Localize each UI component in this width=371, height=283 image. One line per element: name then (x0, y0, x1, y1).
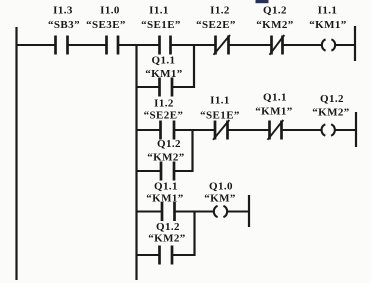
coil KM (214, 206, 227, 217)
svg-text:“SB3”: “SB3” (48, 19, 80, 31)
svg-text:Q1.2: Q1.2 (320, 93, 344, 105)
svg-text:“SE2E”: “SE2E” (144, 110, 184, 122)
contact Q1.1 KM1 (NC, rung2) (268, 120, 284, 140)
label I1.1 "SE1E" (141, 4, 181, 30)
svg-text:I1.1: I1.1 (318, 4, 338, 16)
svg-text:Q1.2: Q1.2 (157, 138, 181, 150)
contact Q1.2 KM2 (NO, branch B) (161, 162, 174, 181)
wire branch A (136, 86, 196, 88)
svg-text:“SE1E”: “SE1E” (200, 110, 240, 122)
right rail rung2 (355, 112, 357, 147)
right rail rung3 (248, 195, 250, 227)
label I1.2 "SE2E" (196, 4, 236, 30)
contact I1.0 SE3E (NO) (107, 36, 119, 55)
contact I1.1 SE1E (NO) (160, 36, 171, 55)
label I1.0 "SE3E" (86, 4, 126, 30)
svg-text:Q1.2: Q1.2 (263, 4, 287, 16)
wire rung2 (136, 129, 358, 131)
label Q1.0 "KM" (coil rung3) (204, 181, 236, 205)
svg-text:Q1.0: Q1.0 (209, 181, 233, 193)
label I1.1 "KM1" (coil rung1) (309, 4, 346, 30)
svg-text:I1.3: I1.3 (53, 4, 73, 16)
svg-text:“SE3E”: “SE3E” (86, 19, 126, 31)
svg-text:“KM1”: “KM1” (309, 19, 346, 31)
label I1.2 "SE2E" (rung2) (144, 98, 184, 122)
contact I1.1 SE1E (NC, rung2) (213, 120, 229, 140)
wire branch C (136, 254, 196, 256)
svg-text:I1.1: I1.1 (149, 4, 169, 16)
svg-text:Q1.1: Q1.1 (263, 92, 287, 104)
contact Q1.1 KM1 (NO, branch A) (160, 78, 173, 97)
svg-text:“KM1”: “KM1” (145, 68, 182, 80)
wire rung1 (16, 44, 357, 46)
svg-text:“KM1”: “KM1” (146, 193, 183, 205)
contact Q1.2 KM2 (NC, rung1) (270, 35, 285, 55)
label Q1.2 "KM2" (rung1) (256, 4, 293, 30)
vertical branch bus (node A) (135, 44, 137, 280)
label Q1.1 "KM1" (rung2) (255, 92, 292, 118)
svg-text:I1.2: I1.2 (154, 98, 174, 110)
contact I1.2 SE2E (NC) (214, 35, 231, 55)
svg-text:I1.1: I1.1 (210, 95, 230, 107)
svg-text:“KM2”: “KM2” (148, 233, 185, 245)
svg-text:I1.2: I1.2 (210, 4, 230, 16)
vertical branch right side rung2 (191, 129, 193, 172)
vertical branch right side rung1 (193, 44, 195, 88)
label Q1.2 "KM2" (branch C) (148, 221, 185, 245)
svg-text:“KM2”: “KM2” (256, 19, 293, 31)
svg-text:“KM”: “KM” (204, 193, 236, 205)
coil KM1 (322, 39, 335, 50)
coil KM2 (322, 124, 335, 135)
svg-text:“KM1”: “KM1” (255, 106, 292, 118)
label I1.1 "SE1E" (rung2) (200, 95, 240, 122)
contact Q1.2 KM2 (NO, branch C) (160, 246, 173, 265)
svg-text:I1.0: I1.0 (100, 4, 120, 16)
blue scan artifact (256, 0, 269, 3)
wire branch B (136, 170, 194, 172)
svg-text:“KM2”: “KM2” (147, 152, 184, 164)
vertical branch right side rung3 (193, 211, 195, 257)
contact Q1.1 KM1 (NO, rung3) (162, 202, 175, 221)
svg-text:Q1.2: Q1.2 (156, 221, 180, 233)
contact I1.3 SB3 (NO) (56, 36, 68, 55)
label Q1.2 "KM2" (branch B) (147, 138, 184, 164)
label I1.3 "SB3" (48, 4, 80, 30)
svg-text:Q1.1: Q1.1 (152, 55, 176, 67)
label Q1.1 "KM1" (branch A) (145, 55, 182, 80)
svg-text:“SE2E”: “SE2E” (196, 19, 236, 31)
svg-text:Q1.1: Q1.1 (154, 181, 178, 193)
svg-text:“SE1E”: “SE1E” (141, 19, 181, 31)
right rail rung1 (354, 26, 356, 61)
svg-text:“KM2”: “KM2” (312, 107, 349, 119)
contact I1.2 SE2E (NO, rung2) (161, 121, 175, 140)
label Q1.2 "KM2" (coil rung2) (312, 93, 349, 119)
wire rung3 (136, 211, 250, 213)
label Q1.1 "KM1" (rung3) (146, 181, 183, 205)
left power rail (15, 27, 17, 280)
